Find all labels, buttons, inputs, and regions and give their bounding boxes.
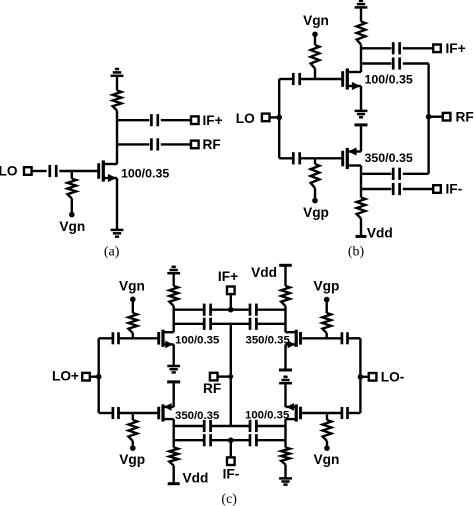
node IF+ label (a) bbox=[203, 113, 223, 128]
node Vdd label top (c) bbox=[251, 265, 277, 280]
svg-text:RF: RF bbox=[203, 137, 221, 152]
svg-text:(c): (c) bbox=[221, 492, 237, 506]
svg-text:Vdd: Vdd bbox=[251, 265, 277, 280]
wire Q7 rail down (c) bbox=[284, 419, 286, 447]
rail tap bar left (c) bbox=[167, 380, 180, 383]
wire IF+ stub (c) bbox=[230, 294, 232, 310]
wire LO to capacitor (a) bbox=[32, 170, 47, 172]
wire line1 (c) bbox=[174, 309, 286, 311]
resistor R11 Vgp bias BL (c) bbox=[128, 413, 137, 445]
value label 350/0.35 TR (c) bbox=[246, 335, 291, 347]
wire LO- stub (c) bbox=[360, 376, 368, 378]
junction dot LO (b) bbox=[276, 115, 282, 121]
wire line3 (c) bbox=[174, 425, 286, 427]
capacitor C11 BL gate (c) bbox=[113, 407, 119, 419]
transistor Q4 100/0.35 NMOS TL (c) bbox=[159, 330, 174, 349]
wire RF line (a) bbox=[117, 143, 191, 145]
capacitor C14 line2 left (c) bbox=[204, 318, 210, 330]
wire Vdd to R8 (c) bbox=[284, 265, 286, 286]
wire top-right gate line (c) bbox=[348, 337, 361, 339]
wire Q5 drain rail down (c) bbox=[172, 419, 174, 447]
node Vgn label TL (c) bbox=[119, 278, 145, 293]
wire R7 to line1 (c) bbox=[172, 306, 174, 332]
power supply rail symbol (b) bbox=[355, 1, 368, 8]
wire bottom gate line left (b) bbox=[279, 157, 293, 159]
resistor R9 Vgn bias TL (c) bbox=[128, 301, 137, 338]
svg-text:Vgp: Vgp bbox=[313, 279, 339, 294]
transistor Q2 100/0.35 NMOS (b) bbox=[343, 68, 361, 90]
port LO+ (c) bbox=[82, 373, 90, 381]
value label 100/0.35 (b) bbox=[365, 72, 413, 86]
port IF+ (a) bbox=[191, 116, 199, 124]
svg-text:Vgn: Vgn bbox=[313, 452, 339, 467]
svg-text:Vgp: Vgp bbox=[303, 205, 329, 220]
value label 350/0.35 (b) bbox=[365, 151, 413, 165]
port IF- (b) bbox=[433, 185, 441, 193]
wire R8 to line1 (c) bbox=[284, 306, 286, 332]
rail tap bar (b) bbox=[355, 123, 368, 126]
power supply rail symbol top-left (c) bbox=[167, 267, 180, 273]
wire LO to junction (b) bbox=[270, 116, 280, 118]
transistor Q5 350/0.35 PMOS BL (c) bbox=[159, 403, 174, 422]
wire top-left gate line (c) bbox=[99, 337, 113, 339]
node LO- label (c) bbox=[381, 370, 405, 385]
svg-text:LO: LO bbox=[236, 111, 255, 126]
svg-text:IF+: IF+ bbox=[203, 113, 223, 128]
transistor Q1 100/0.35 NMOS (a) bbox=[99, 160, 117, 182]
junction dot LO+ (c) bbox=[96, 374, 102, 380]
wire line4 (c) bbox=[174, 439, 286, 441]
wire LO vertical rail (b) bbox=[278, 79, 280, 158]
wire tap to Q3 (b) bbox=[360, 125, 362, 152]
value label 350/0.35 BL (c) bbox=[175, 410, 220, 422]
resistor R2 Vgn bias (a) bbox=[67, 171, 76, 212]
value label 100/0.35 BR (c) bbox=[245, 410, 290, 422]
svg-text:Vdd: Vdd bbox=[367, 226, 393, 241]
wire R14 to ground (c) bbox=[284, 465, 286, 479]
capacitor C21 BR gate (c) bbox=[342, 407, 348, 419]
Vdd terminal bar BL (c) bbox=[168, 482, 180, 485]
svg-text:IF-: IF- bbox=[223, 467, 240, 482]
junction dot LO- (c) bbox=[358, 374, 364, 380]
wire bottom gate line right (b) bbox=[300, 157, 343, 159]
subfigure label (b) bbox=[348, 244, 365, 259]
svg-text:350/0.35: 350/0.35 bbox=[365, 151, 413, 165]
svg-text:LO: LO bbox=[0, 164, 18, 179]
svg-text:350/0.35: 350/0.35 bbox=[246, 335, 291, 347]
node Vgn terminal dot BR (c) bbox=[324, 445, 330, 451]
wire RF vertical rail (b) bbox=[427, 64, 429, 174]
subfigure label (c) bbox=[221, 492, 237, 506]
wire LO- rail (c) bbox=[359, 338, 361, 413]
resistor R10 Vgp bias TR (c) bbox=[322, 302, 331, 339]
port IF+ (c) bbox=[227, 287, 235, 295]
port RF (a) bbox=[191, 141, 199, 149]
node LO+ label (c) bbox=[52, 369, 79, 384]
ground TL (c) bbox=[167, 366, 180, 372]
capacitor C16 line3 left (c) bbox=[204, 420, 210, 432]
capacitor C5 IF+ (b) bbox=[393, 42, 399, 54]
svg-text:100/0.35: 100/0.35 bbox=[365, 72, 413, 86]
port LO (b) bbox=[262, 114, 270, 122]
wire RF stub (c) bbox=[218, 375, 231, 377]
svg-text:350/0.35: 350/0.35 bbox=[175, 410, 220, 422]
Vdd terminal bar (b) bbox=[356, 235, 367, 238]
capacitor C12 line1 left (c) bbox=[204, 304, 210, 316]
capacitor C19 line4 right (c) bbox=[250, 434, 256, 446]
node Vgp label (b) bbox=[303, 205, 329, 220]
node Vgn terminal dot (a) bbox=[69, 212, 75, 218]
port LO- (c) bbox=[369, 373, 377, 381]
resistor R13 load BL (c) bbox=[169, 448, 178, 466]
svg-text:Vgn: Vgn bbox=[59, 219, 85, 234]
node Vgp label TR (c) bbox=[313, 279, 339, 294]
svg-text:Vdd: Vdd bbox=[183, 470, 209, 485]
node RF label (a) bbox=[203, 137, 221, 152]
wire bottom-left gate line (c) bbox=[99, 412, 113, 414]
wire R13 to Vdd (c) bbox=[172, 466, 174, 484]
subfigure label (a) bbox=[104, 244, 120, 259]
svg-text:LO-: LO- bbox=[381, 370, 405, 385]
wire Q6 drain down to tap (c) bbox=[284, 344, 286, 370]
wire supply to R3 (b) bbox=[360, 9, 362, 22]
node IF+ label (b) bbox=[446, 41, 466, 56]
rail tap bar right (c) bbox=[279, 369, 292, 372]
node Vgp terminal dot (b) bbox=[312, 198, 318, 204]
wire LO+ stub (c) bbox=[90, 376, 99, 378]
svg-text:RF: RF bbox=[203, 381, 221, 396]
power supply rail symbol mid-right (c) bbox=[279, 377, 292, 383]
wire supply to R1 (a) bbox=[116, 77, 118, 91]
junction dot IF- (c) bbox=[228, 437, 234, 443]
capacitor C8 (b) bbox=[393, 168, 399, 180]
wire Q4 source to ground (c) bbox=[172, 344, 174, 366]
capacitor C2 IF+ (a) bbox=[151, 114, 157, 126]
port LO (a) bbox=[24, 167, 32, 175]
capacitor C10 TL gate (c) bbox=[113, 332, 119, 344]
svg-text:Vgn: Vgn bbox=[303, 13, 329, 28]
svg-text:(b): (b) bbox=[348, 244, 365, 259]
wire R6 to Vdd (b) bbox=[360, 219, 362, 237]
port RF (c) bbox=[210, 373, 218, 381]
node Vgn terminal dot TL (c) bbox=[130, 297, 136, 303]
svg-text:Vgp: Vgp bbox=[119, 452, 145, 467]
value label 100/0.35 (a) bbox=[121, 166, 169, 180]
transistor Q6 350/0.35 PMOS TR (c) bbox=[286, 330, 301, 349]
node Vgn label (a) bbox=[59, 219, 85, 234]
wire drain rail (a) bbox=[116, 111, 118, 165]
node Vgp terminal dot BL (c) bbox=[130, 445, 136, 451]
port IF+ (b) bbox=[433, 45, 441, 53]
capacitor C4 (b) bbox=[293, 73, 299, 85]
resistor R3 load (b) bbox=[357, 22, 366, 45]
wire C1 to gate Q1 (a) bbox=[59, 170, 98, 172]
wire source rail down (b) bbox=[360, 166, 362, 198]
wire drain rail (b) bbox=[360, 45, 362, 73]
junction dot RF (b) bbox=[426, 114, 432, 120]
node Vdd label (b) bbox=[367, 226, 393, 241]
wire line2 (c) bbox=[174, 323, 286, 325]
node IF- label (c) bbox=[223, 467, 240, 482]
wire LO+ rail (c) bbox=[97, 338, 99, 413]
svg-text:IF+: IF+ bbox=[218, 269, 238, 284]
node RF label (c) bbox=[203, 381, 221, 396]
wire top gate line left (b) bbox=[279, 78, 293, 80]
power supply rail symbol (a) bbox=[111, 69, 124, 76]
node Vdd label BL (c) bbox=[183, 470, 209, 485]
node Vgp terminal dot TR (c) bbox=[324, 297, 330, 303]
wire coupling line to RF (b) bbox=[361, 62, 429, 64]
capacitor C3 RF (a) bbox=[151, 138, 157, 150]
wire source to ground (b) bbox=[360, 86, 362, 111]
junction dot RF (c) bbox=[228, 374, 233, 379]
wire tap to Q5 (c) bbox=[172, 382, 174, 407]
node Vgp label BL (c) bbox=[119, 452, 145, 467]
resistor R4 Vgn bias (b) bbox=[311, 37, 320, 79]
wire supply to Q7 (c) bbox=[284, 383, 286, 407]
wire IF- line (b) bbox=[361, 188, 433, 190]
svg-text:Vgn: Vgn bbox=[119, 278, 145, 293]
svg-text:RF: RF bbox=[456, 109, 474, 124]
node LO label (a) bbox=[0, 164, 18, 179]
wire IF- stub (c) bbox=[230, 440, 232, 457]
wire C21 to gate (c) bbox=[301, 412, 342, 414]
svg-text:(a): (a) bbox=[104, 244, 120, 259]
wire top gate line right (b) bbox=[300, 78, 343, 80]
resistor R5 Vgp bias (b) bbox=[311, 158, 320, 198]
wire C20 to gate (c) bbox=[301, 337, 342, 339]
svg-text:IF+: IF+ bbox=[446, 41, 466, 56]
transistor Q3 350/0.35 PMOS (b) bbox=[343, 147, 361, 169]
port RF (b) bbox=[443, 113, 451, 121]
value label 100/0.35 TL (c) bbox=[175, 335, 220, 347]
wire RF stub (b) bbox=[429, 115, 443, 117]
wire C10 to gate (c) bbox=[118, 337, 158, 339]
wire IF+ line (b) bbox=[361, 47, 433, 49]
capacitor C15 line2 right (c) bbox=[250, 318, 256, 330]
wire center vertical (c) bbox=[230, 324, 232, 426]
transistor Q7 100/0.35 NMOS BR (c) bbox=[286, 403, 301, 422]
node LO label (b) bbox=[236, 111, 255, 126]
capacitor C9 IF- (b) bbox=[393, 183, 399, 195]
node IF- label (b) bbox=[446, 182, 463, 197]
ground (a) bbox=[111, 230, 124, 237]
node IF+ label (c) bbox=[218, 269, 238, 284]
capacitor C6 (b) bbox=[393, 57, 399, 69]
capacitor C13 line1 right (c) bbox=[250, 304, 256, 316]
capacitor C7 (b) bbox=[293, 152, 299, 164]
capacitor C1 (a) bbox=[50, 165, 56, 177]
wire supply to R7 (c) bbox=[172, 274, 174, 286]
svg-text:IF-: IF- bbox=[446, 182, 463, 197]
resistor R7 load TL (c) bbox=[169, 286, 178, 306]
wire IF- coupling line (b) bbox=[361, 173, 429, 175]
node RF label (b) bbox=[456, 109, 474, 124]
capacitor C18 line4 left (c) bbox=[204, 434, 210, 446]
svg-text:LO+: LO+ bbox=[52, 369, 79, 384]
node Vgn label BR (c) bbox=[313, 452, 339, 467]
ground mid (b) bbox=[355, 111, 368, 117]
resistor R6 load (b) bbox=[357, 198, 366, 219]
svg-text:100/0.35: 100/0.35 bbox=[245, 410, 290, 422]
resistor R12 Vgn bias BR (c) bbox=[323, 413, 332, 445]
wire IF+ line (a) bbox=[117, 119, 191, 121]
resistor R8 load TR (c) bbox=[281, 286, 290, 306]
wire source to ground (a) bbox=[116, 178, 118, 230]
svg-text:100/0.35: 100/0.35 bbox=[175, 335, 220, 347]
port IF- (c) bbox=[227, 457, 235, 465]
ground BR (c) bbox=[279, 478, 292, 484]
resistor R14 load BR (c) bbox=[281, 448, 290, 465]
junction dot IF+ (c) bbox=[228, 307, 234, 313]
svg-text:100/0.35: 100/0.35 bbox=[121, 166, 169, 180]
wire C11 to gate (c) bbox=[118, 412, 158, 414]
Vdd terminal bar top (c) bbox=[279, 264, 292, 267]
wire bottom-right gate line (c) bbox=[348, 412, 361, 414]
capacitor C20 TR gate (c) bbox=[342, 332, 348, 344]
node Vgn terminal dot (b) bbox=[312, 32, 318, 38]
node Vgn label (b) bbox=[303, 13, 329, 28]
capacitor C17 line3 right (c) bbox=[250, 420, 256, 432]
resistor R1 load (a) bbox=[113, 91, 122, 111]
